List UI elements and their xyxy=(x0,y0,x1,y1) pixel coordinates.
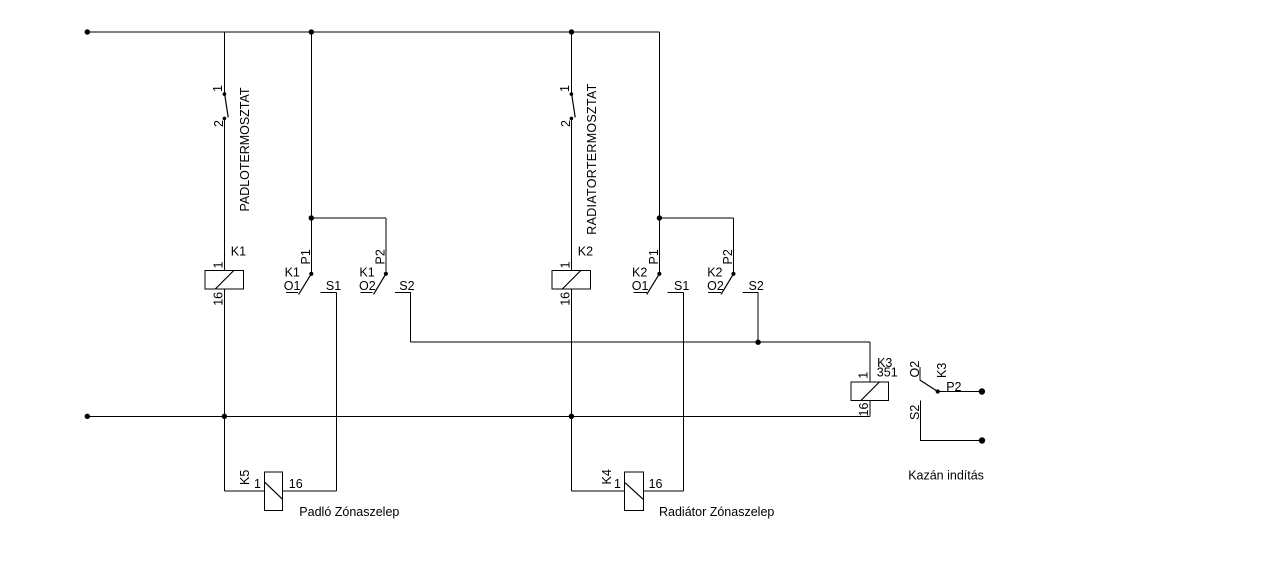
svg-text:K2: K2 xyxy=(632,265,647,279)
svg-text:16: 16 xyxy=(289,477,303,491)
svg-text:Radiátor Zónaszelep: Radiátor Zónaszelep xyxy=(659,505,774,519)
svg-text:2: 2 xyxy=(559,120,573,127)
svg-text:16: 16 xyxy=(212,292,226,306)
svg-text:16: 16 xyxy=(857,403,871,417)
svg-text:S2: S2 xyxy=(399,279,414,293)
svg-text:K4: K4 xyxy=(600,469,614,484)
svg-text:16: 16 xyxy=(649,477,663,491)
svg-text:O2: O2 xyxy=(908,361,922,378)
svg-text:1: 1 xyxy=(559,262,573,269)
svg-text:1: 1 xyxy=(212,262,226,269)
svg-text:S2: S2 xyxy=(749,279,764,293)
svg-text:O2: O2 xyxy=(359,279,376,293)
svg-text:K2: K2 xyxy=(707,265,722,279)
svg-text:1: 1 xyxy=(558,85,572,92)
svg-text:Padló Zónaszelep: Padló Zónaszelep xyxy=(299,505,399,519)
svg-text:1: 1 xyxy=(211,85,225,92)
svg-text:K1: K1 xyxy=(359,265,374,279)
svg-text:PADLOTERMOSZTAT: PADLOTERMOSZTAT xyxy=(238,87,252,211)
svg-text:K1: K1 xyxy=(285,265,300,279)
svg-text:351: 351 xyxy=(877,365,898,379)
svg-text:16: 16 xyxy=(559,292,573,306)
svg-text:S1: S1 xyxy=(326,279,341,293)
svg-text:1: 1 xyxy=(254,477,261,491)
svg-text:S2: S2 xyxy=(908,405,922,420)
svg-text:K1: K1 xyxy=(231,245,246,259)
svg-text:O1: O1 xyxy=(632,279,649,293)
svg-text:Kazán indítás: Kazán indítás xyxy=(908,469,984,483)
svg-text:K3: K3 xyxy=(935,363,949,378)
svg-text:K5: K5 xyxy=(238,470,252,485)
svg-text:RADIATORTERMOSZTAT: RADIATORTERMOSZTAT xyxy=(585,83,599,234)
svg-text:O2: O2 xyxy=(707,279,724,293)
svg-text:P2: P2 xyxy=(721,249,735,264)
svg-text:P2: P2 xyxy=(374,249,388,264)
svg-text:P1: P1 xyxy=(647,249,661,264)
svg-text:S1: S1 xyxy=(674,279,689,293)
svg-text:P2: P2 xyxy=(946,380,961,394)
svg-text:K2: K2 xyxy=(578,245,593,259)
svg-text:O1: O1 xyxy=(284,279,301,293)
svg-text:1: 1 xyxy=(614,477,621,491)
svg-text:P1: P1 xyxy=(299,249,313,264)
svg-text:1: 1 xyxy=(857,372,871,379)
svg-text:2: 2 xyxy=(212,120,226,127)
